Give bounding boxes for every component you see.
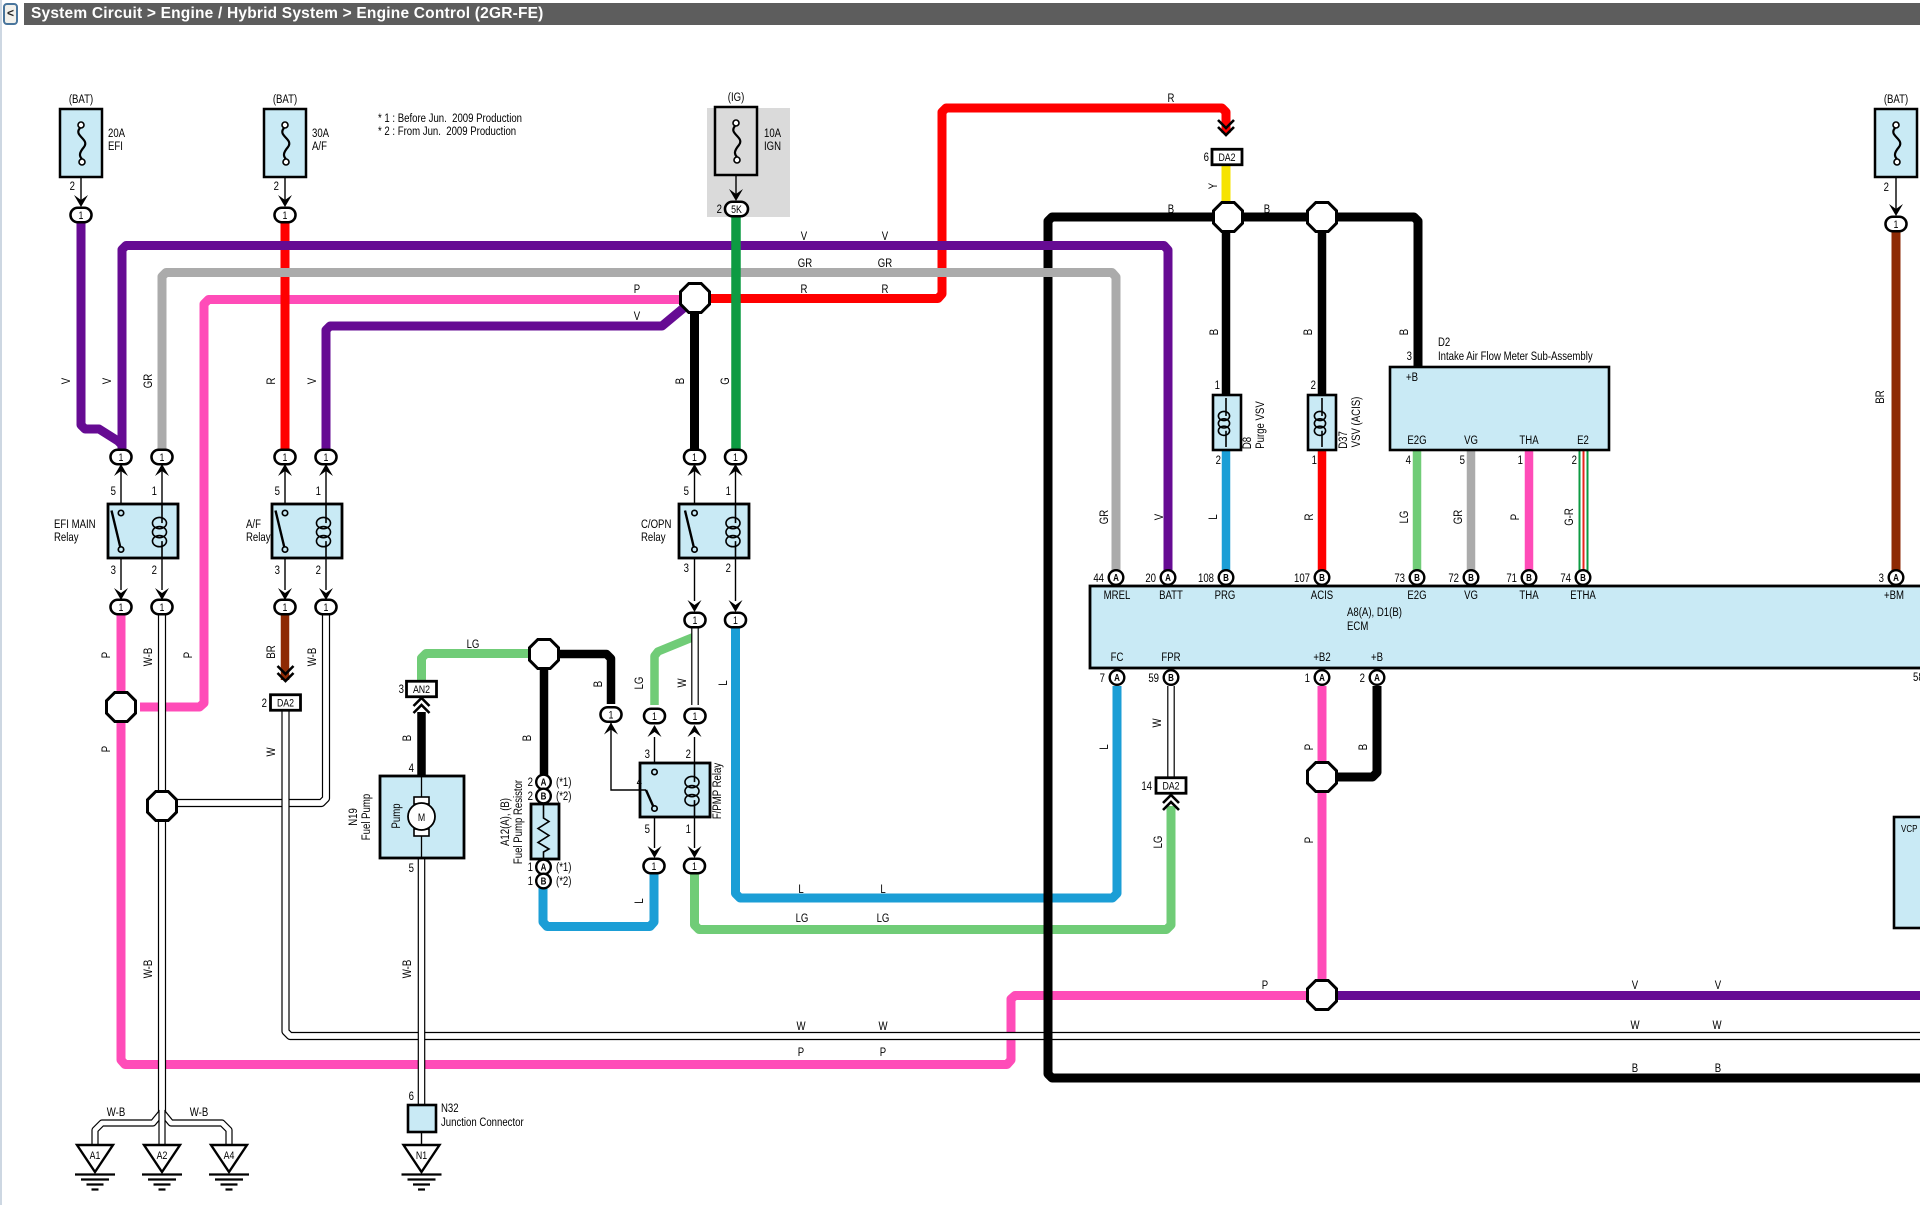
svg-text:(BAT): (BAT): [69, 93, 93, 106]
svg-text:20: 20: [1145, 572, 1156, 585]
svg-text:B: B: [1319, 572, 1325, 583]
svg-text:L: L: [880, 883, 885, 896]
connector 3 AN2: [407, 681, 437, 697]
wire pink P from ECM +B2 pin through octagons J5 J6: [1318, 686, 1327, 985]
svg-text:* 2 : From Jun. 2009 Producti: * 2 : From Jun. 2009 Production: [378, 125, 516, 138]
svg-text:1: 1: [1312, 454, 1317, 467]
svg-text:Intake Air Flow Meter Sub-Asse: Intake Air Flow Meter Sub-Assembly: [1438, 350, 1593, 363]
svg-text:107: 107: [1294, 572, 1310, 585]
svg-text:1: 1: [1305, 672, 1310, 685]
svg-text:ETHA: ETHA: [1570, 589, 1596, 602]
svg-text:THA: THA: [1519, 589, 1539, 602]
svg-text:2: 2: [726, 562, 731, 575]
svg-text:(BAT): (BAT): [273, 93, 297, 106]
fuel pump resistor pin 1 connectors: [536, 860, 551, 875]
A/F relay pin 5 lead: [284, 466, 286, 504]
fuel pump resistor A12 pin 2 connectors: [536, 775, 551, 790]
svg-text:1: 1: [283, 210, 288, 222]
wire white W from 2 DA2 connector, down then right to edge: [286, 710, 1920, 1036]
svg-text:Y: Y: [1207, 183, 1220, 189]
svg-text:Junction Connector: Junction Connector: [441, 1116, 524, 1129]
svg-text:Relay: Relay: [246, 531, 271, 544]
svg-text:73: 73: [1394, 572, 1405, 585]
svg-text:GR: GR: [798, 257, 813, 270]
junction octagon J4 LG/black: [530, 640, 559, 669]
connector 6 DA2: [1218, 120, 1234, 135]
svg-text:LG: LG: [877, 912, 890, 925]
svg-text:BATT: BATT: [1159, 589, 1183, 602]
wire blue L from D8 purge VSV pin 2 to ECM PRG pin: [1222, 450, 1231, 571]
svg-text:B: B: [1715, 1062, 1721, 1075]
svg-text:A: A: [1114, 672, 1120, 683]
svg-text:W-B: W-B: [306, 648, 319, 666]
junction octagon J5 pink/black: [1308, 763, 1337, 792]
svg-text:1: 1: [283, 452, 288, 464]
svg-text:DA2: DA2: [277, 698, 295, 710]
svg-text:5: 5: [111, 485, 116, 498]
relay EFI MAIN: [108, 504, 178, 558]
connector 2 DA2 below A/F relay: [278, 666, 294, 681]
svg-text:2: 2: [152, 564, 157, 577]
svg-text:1: 1: [324, 602, 329, 614]
EFI MAIN relay pin 2 lead: [161, 558, 163, 590]
svg-text:L: L: [717, 680, 730, 685]
svg-text:+B: +B: [1371, 651, 1383, 664]
wire violet V long horizontal to ECM BATT pin: [122, 246, 1168, 572]
wire white W from C/OPN relay pin 3 oval to F/PMP oval: [691, 625, 699, 705]
svg-text:R: R: [1168, 92, 1175, 105]
svg-text:E2G: E2G: [1407, 589, 1426, 602]
EFI MAIN relay pin 5 lead: [120, 466, 122, 504]
svg-text:3: 3: [111, 564, 116, 577]
A/F relay pin 2 lead: [325, 558, 327, 590]
svg-text:P: P: [798, 1046, 804, 1059]
svg-text:2: 2: [262, 697, 267, 710]
svg-text:N1: N1: [416, 1150, 428, 1162]
component VCP box right edge: [1894, 817, 1920, 928]
svg-text:4: 4: [409, 762, 414, 775]
svg-text:B: B: [1632, 1062, 1638, 1075]
svg-text:+B: +B: [1406, 371, 1418, 384]
svg-text:1: 1: [1894, 219, 1899, 231]
svg-text:ECM: ECM: [1347, 620, 1368, 633]
svg-text:2: 2: [274, 180, 279, 193]
svg-text:1: 1: [152, 485, 157, 498]
junction octagon J8 on ground bus: [1308, 203, 1337, 232]
svg-text:B: B: [1468, 572, 1474, 583]
svg-text:Purge VSV: Purge VSV: [1254, 401, 1267, 449]
svg-text:P: P: [1509, 514, 1522, 520]
ground A4: [211, 1145, 247, 1172]
svg-text:5: 5: [409, 862, 414, 875]
svg-text:GR: GR: [1452, 510, 1465, 525]
svg-text:V: V: [101, 377, 114, 384]
svg-text:2: 2: [1216, 454, 1221, 467]
fuse BAT right: [1875, 109, 1917, 177]
ECM A8(A) D1(B) box: [1090, 586, 1920, 668]
junction octagon J2 white W-B: [148, 792, 177, 821]
wire black B ground bus from octagon J7 left, down and right to edge: [1048, 217, 1920, 1078]
wire pink P from EFI MAIN relay pin 3 through junction to bottom: [121, 611, 1318, 1065]
svg-text:5: 5: [645, 823, 650, 836]
svg-text:B: B: [1208, 329, 1221, 335]
svg-text:F/PMP Relay: F/PMP Relay: [711, 762, 724, 819]
svg-text:P: P: [100, 746, 113, 752]
svg-text:1: 1: [693, 615, 698, 627]
wire white W-B from EFI MAIN relay pin 2 down to ground split: [158, 611, 166, 1118]
svg-text:B: B: [541, 791, 547, 802]
title bar: [24, 3, 1920, 25]
svg-text:W-B: W-B: [142, 648, 155, 666]
svg-text:V: V: [60, 377, 73, 384]
svg-text:P: P: [1303, 744, 1316, 750]
svg-text:1: 1: [119, 452, 124, 464]
svg-text:BR: BR: [265, 645, 278, 658]
wire green G from 5K ignition fuse to C/OPN relay pin 1: [731, 214, 741, 452]
svg-text:B: B: [401, 735, 414, 741]
svg-text:D37: D37: [1337, 431, 1350, 449]
A/F relay pin 3 lead: [284, 558, 286, 590]
wire pink P from D2 THA pin to ECM THA pin: [1525, 450, 1534, 571]
svg-text:MREL: MREL: [1104, 589, 1131, 602]
svg-text:58: 58: [1913, 671, 1920, 684]
wire gray GR from EFI MAIN relay pin 1 to ECM MREL pin: [162, 273, 1116, 572]
svg-text:A: A: [541, 862, 547, 873]
svg-text:V: V: [882, 230, 889, 243]
svg-text:R: R: [265, 377, 278, 384]
svg-text:DA2: DA2: [1218, 152, 1236, 164]
svg-text:VG: VG: [1464, 589, 1478, 602]
svg-text:P: P: [1303, 837, 1316, 843]
svg-text:EFI: EFI: [108, 140, 123, 153]
svg-text:2: 2: [1311, 379, 1316, 392]
wire light green LG from F/PMP relay pin 1 to 14 DA2: [695, 806, 1172, 930]
svg-text:L: L: [633, 898, 646, 903]
svg-text:Pump: Pump: [390, 803, 403, 828]
svg-text:L: L: [1098, 744, 1111, 749]
junction octagon J7 on ground bus: [1214, 203, 1243, 232]
svg-text:PRG: PRG: [1215, 589, 1236, 602]
svg-text:7: 7: [1100, 672, 1105, 685]
svg-text:V: V: [801, 230, 808, 243]
svg-text:(*1): (*1): [556, 776, 571, 789]
wire white W-B branch from octagon J2 to A/F relay pin 2: [175, 611, 326, 803]
svg-text:B: B: [521, 735, 534, 741]
svg-text:THA: THA: [1519, 434, 1539, 447]
svg-text:Fuel Pump: Fuel Pump: [360, 794, 373, 840]
svg-text:B: B: [1398, 329, 1411, 335]
svg-text:B: B: [541, 876, 547, 887]
wire green-red G-R from D2 E2 pin to ECM ETHA pin: [1579, 450, 1581, 571]
svg-text:2: 2: [1884, 181, 1889, 194]
wire black B from octagon J4 right to oval for F/PMP pin 4: [557, 654, 611, 704]
svg-text:B: B: [1168, 203, 1174, 216]
svg-text:3: 3: [645, 748, 650, 761]
wire violet V from A/F relay pin 1 to octagon J3: [326, 306, 686, 452]
svg-text:3: 3: [1407, 350, 1412, 363]
svg-text:R: R: [801, 283, 808, 296]
svg-text:LG: LG: [1152, 836, 1165, 849]
F/PMP relay pin 4 lead: [611, 718, 646, 790]
svg-text:A1: A1: [90, 1150, 101, 1162]
wire white W-B ground branch to A1: [95, 1112, 162, 1147]
svg-text:M: M: [418, 812, 425, 824]
gray background box of IG fuse: [707, 108, 790, 217]
svg-text:B: B: [1168, 672, 1174, 683]
svg-text:108: 108: [1198, 572, 1214, 585]
svg-text:W: W: [1151, 718, 1164, 728]
svg-text:G-R: G-R: [1563, 508, 1576, 526]
A/F relay pin 1 lead: [325, 466, 327, 504]
svg-text:(*2): (*2): [556, 875, 571, 888]
connector oval below A/F fuse: [275, 208, 296, 223]
svg-text:Relay: Relay: [54, 531, 79, 544]
wire light green LG from D2 E2G pin to ECM E2G pin: [1413, 450, 1422, 571]
wire white W from ECM FPR pin to 14 DA2: [1167, 686, 1175, 779]
svg-text:B: B: [1302, 329, 1315, 335]
svg-text:A/F: A/F: [246, 518, 261, 531]
F/PMP relay pin 5 lead: [654, 818, 656, 848]
svg-text:30A: 30A: [312, 127, 330, 140]
connector 14 DA2: [1156, 778, 1186, 794]
svg-text:1: 1: [324, 452, 329, 464]
relay A/F: [272, 504, 342, 558]
svg-text:LG: LG: [796, 912, 809, 925]
svg-text:GR: GR: [1098, 510, 1111, 525]
svg-text:Fuel Pump Resistor: Fuel Pump Resistor: [512, 780, 525, 865]
wire black B from octagon J3 to C/OPN relay pin 5: [690, 313, 699, 452]
svg-text:1: 1: [160, 452, 165, 464]
svg-text:3: 3: [684, 562, 689, 575]
svg-text:P: P: [182, 652, 195, 658]
svg-text:4: 4: [1406, 454, 1411, 467]
svg-text:VSV (ACIS): VSV (ACIS): [1350, 397, 1363, 448]
svg-text:B: B: [1357, 744, 1370, 750]
svg-text:LG: LG: [633, 677, 646, 690]
svg-text:VCP: VCP: [1901, 823, 1917, 834]
svg-text:W-B: W-B: [142, 960, 155, 978]
svg-text:FC: FC: [1111, 651, 1124, 664]
relay C/OPN: [679, 504, 749, 558]
F/PMP relay pin 1 lead: [694, 818, 696, 848]
ground A2: [144, 1145, 180, 1172]
wire light green LG from octagon J4 to 3 AN2 connector: [422, 654, 531, 683]
svg-text:3: 3: [275, 564, 280, 577]
svg-text:2: 2: [717, 203, 722, 216]
svg-text:IGN: IGN: [764, 140, 781, 153]
svg-text:1: 1: [609, 710, 614, 722]
svg-text:59: 59: [1148, 672, 1159, 685]
svg-text:1: 1: [652, 711, 657, 723]
svg-text:1: 1: [160, 602, 165, 614]
fuel pump N19 box: [380, 776, 464, 858]
wire black B bus from octagon J8 to D2 +B pin 3: [1337, 217, 1418, 367]
svg-text:14: 14: [1141, 780, 1152, 793]
svg-text:B: B: [1223, 572, 1229, 583]
svg-text:2: 2: [1572, 454, 1577, 467]
svg-text:71: 71: [1506, 572, 1517, 585]
svg-text:5K: 5K: [731, 204, 742, 216]
svg-text:P: P: [100, 652, 113, 658]
svg-text:1: 1: [528, 861, 533, 874]
svg-text:(BAT): (BAT): [1884, 93, 1908, 106]
wire blue L from C/OPN relay pin 2 to ECM FC pin: [736, 625, 1118, 898]
wire violet V from octagon J6 right to edge: [1336, 991, 1920, 1000]
svg-text:1: 1: [528, 875, 533, 888]
svg-text:DA2: DA2: [1162, 781, 1180, 793]
svg-text:* 1 : Before Jun. 2009 Produc: * 1 : Before Jun. 2009 Production: [378, 112, 522, 125]
svg-text:ACIS: ACIS: [1311, 589, 1333, 602]
C/OPN relay pin 5 lead: [694, 466, 696, 504]
svg-text:B: B: [1580, 572, 1586, 583]
svg-text:C/OPN: C/OPN: [641, 518, 671, 531]
svg-text:W: W: [796, 1020, 806, 1033]
svg-text:B: B: [1414, 572, 1420, 583]
svg-text:A2: A2: [157, 1150, 168, 1162]
back button: [3, 3, 18, 25]
svg-text:GR: GR: [878, 257, 893, 270]
svg-text:V: V: [1715, 979, 1722, 992]
svg-text:B: B: [1526, 572, 1532, 583]
relay F/PMP: [640, 763, 710, 817]
wire red R from A/F fuse to A/F relay: [281, 220, 290, 452]
svg-text:W-B: W-B: [190, 1106, 208, 1119]
svg-text:4: 4: [637, 776, 642, 789]
fuse 30A A/F: [264, 109, 306, 177]
left window border: [0, 0, 2, 1205]
fuse 20A EFI: [60, 109, 102, 177]
wire white W-B from fuel pump to N32 junction connector: [418, 858, 426, 1105]
connector oval below EFI fuse: [71, 208, 92, 223]
EFI MAIN relay pin 3 lead: [120, 558, 122, 590]
svg-text:V: V: [306, 377, 319, 384]
svg-text:1: 1: [692, 452, 697, 464]
svg-text:A/F: A/F: [312, 140, 327, 153]
svg-text:1: 1: [283, 602, 288, 614]
svg-text:+B2: +B2: [1313, 651, 1330, 664]
svg-text:(*2): (*2): [556, 790, 571, 803]
wire white W-B ground stem to A2: [158, 1110, 165, 1147]
svg-text:44: 44: [1093, 572, 1104, 585]
wire violet V from EFI fuse joining main V wire: [81, 220, 122, 445]
svg-text:N19: N19: [347, 808, 360, 826]
svg-text:EFI MAIN: EFI MAIN: [54, 518, 96, 531]
svg-text:BR: BR: [1874, 390, 1887, 403]
ground N1: [404, 1145, 440, 1172]
svg-text:LG: LG: [1398, 511, 1411, 524]
svg-text:V: V: [1632, 979, 1639, 992]
F/PMP relay pin 3 lead: [654, 737, 656, 763]
svg-text:E2: E2: [1577, 434, 1589, 447]
svg-text:A: A: [541, 777, 547, 788]
svg-text:1: 1: [652, 861, 657, 873]
wire black B from octagon J4 down to fuel pump resistor pin 2: [540, 667, 549, 778]
svg-text:W-B: W-B: [401, 960, 414, 978]
svg-text:74: 74: [1560, 572, 1571, 585]
svg-text:B: B: [592, 681, 605, 687]
svg-text:6: 6: [1204, 151, 1209, 164]
svg-text:R: R: [1303, 513, 1316, 520]
svg-text:V: V: [1153, 513, 1166, 520]
svg-text:20A: 20A: [108, 127, 126, 140]
svg-text:W: W: [676, 678, 689, 688]
junction octagon J1 pink: [107, 693, 136, 722]
wire black B from ECM +B pin to octagon J5: [1334, 686, 1377, 777]
svg-text:D8: D8: [1241, 437, 1254, 449]
wire gray GR from D2 VG pin to ECM VG pin: [1467, 450, 1476, 571]
svg-text:P: P: [1262, 979, 1268, 992]
svg-text:1: 1: [686, 823, 691, 836]
C/OPN relay pin 2 lead: [735, 558, 737, 601]
svg-text:3: 3: [1879, 572, 1884, 585]
svg-text:1: 1: [79, 210, 84, 222]
wire black B from 3 AN2 to fuel pump pin 4: [417, 712, 426, 778]
svg-text:A: A: [1113, 572, 1119, 583]
svg-text:(IG): (IG): [728, 91, 745, 104]
svg-text:A: A: [1165, 572, 1171, 583]
svg-text:Relay: Relay: [641, 531, 666, 544]
svg-text:W: W: [1630, 1019, 1640, 1032]
svg-text:1: 1: [1215, 379, 1220, 392]
svg-text:3: 3: [399, 683, 404, 696]
junction octagon J3 red/pink/violet/black: [681, 284, 710, 313]
svg-text:A: A: [1374, 672, 1380, 683]
wire red R from octagon J3 to 6 DA2 arrow: [710, 108, 1226, 299]
wire yellow Y from 6 DA2 to octagon J7: [1222, 163, 1231, 205]
fuel pump motor M: [414, 797, 429, 804]
wire blue L from fuel pump resistor to F/PMP relay pin 5: [543, 871, 654, 927]
svg-text:E2G: E2G: [1407, 434, 1426, 447]
svg-text:1: 1: [733, 452, 738, 464]
wire white W-B ground branch to A4: [162, 1112, 229, 1147]
svg-text:2: 2: [528, 790, 533, 803]
ground A1: [77, 1145, 113, 1172]
svg-text:1: 1: [1518, 454, 1523, 467]
C/OPN relay pin 1 lead: [735, 466, 737, 504]
svg-text:1: 1: [119, 602, 124, 614]
svg-text:1: 1: [693, 711, 698, 723]
svg-text:A4: A4: [224, 1150, 235, 1162]
wire pink P from corner down to junction J1: [140, 300, 680, 708]
wire brown BR from A/F relay pin 3 to 2 DA2: [281, 611, 290, 680]
svg-text:D2: D2: [1438, 336, 1450, 349]
svg-text:GR: GR: [142, 374, 155, 389]
svg-text:V: V: [634, 310, 641, 323]
svg-text:6: 6: [409, 1090, 414, 1103]
svg-text:2: 2: [528, 776, 533, 789]
F/PMP relay pin 2 lead: [694, 737, 696, 763]
svg-text:2: 2: [70, 180, 75, 193]
svg-text:1: 1: [692, 861, 697, 873]
svg-text:L: L: [1207, 514, 1220, 519]
C/OPN relay pin 3 lead: [694, 558, 696, 601]
svg-text:VG: VG: [1464, 434, 1478, 447]
svg-text:B: B: [1264, 203, 1270, 216]
svg-text:2: 2: [1360, 672, 1365, 685]
svg-text:5: 5: [1460, 454, 1465, 467]
svg-text:FPR: FPR: [1161, 651, 1180, 664]
svg-text:W: W: [878, 1020, 888, 1033]
svg-text:A: A: [1319, 672, 1325, 683]
svg-text:1: 1: [733, 615, 738, 627]
wire black B from octagon J8 to D37 VSV pin 2: [1318, 230, 1327, 395]
svg-text:W: W: [265, 747, 278, 757]
wire light green LG from C/OPN relay pin 3 to F/PMP relay pin 3: [655, 636, 697, 705]
svg-text:G: G: [719, 377, 732, 384]
svg-text:W-B: W-B: [107, 1106, 125, 1119]
connector oval below right BAT fuse: [1886, 217, 1907, 232]
svg-text:1: 1: [726, 485, 731, 498]
